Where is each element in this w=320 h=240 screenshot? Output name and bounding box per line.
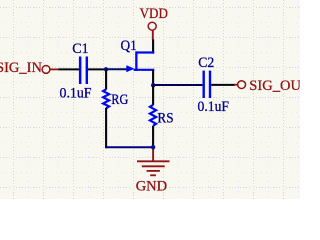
node J2 junction: [151, 83, 155, 87]
port SIG_OUT circle: [238, 81, 246, 89]
svg-text:C2: C2: [198, 55, 214, 71]
wire J1 to RG: [105, 69, 107, 89]
wire VDD to Q1 drain: [152, 40, 154, 54]
wire J2 to C2: [153, 84, 202, 86]
svg-text:C1: C1: [72, 41, 88, 57]
wire C1 to node J1: [88, 68, 106, 70]
grid dots: [0, 0, 300, 199]
port SIG_IN stub: [50, 68, 59, 70]
transistor Q1 gate arrow: [126, 65, 134, 72]
svg-text:Q1: Q1: [121, 38, 137, 54]
wire J2 to RS: [152, 85, 154, 105]
ground bar 1: [137, 160, 170, 162]
ground bar 4: [150, 174, 156, 176]
svg-text:SIG_OUT: SIG_OUT: [249, 78, 300, 94]
port SIG_OUT stub: [234, 84, 238, 86]
transistor Q1 drain lead: [136, 51, 154, 53]
node J1 junction: [104, 67, 108, 71]
resistor RS zigzag: [150, 105, 156, 126]
ground bar 2: [142, 165, 165, 167]
wire RG to bottom rail: [105, 108, 107, 148]
ground bar 3: [147, 170, 160, 172]
transistor Q1 source lead: [134, 69, 155, 71]
wire SIG_IN to C1: [59, 68, 80, 70]
svg-text:SIG_IN: SIG_IN: [0, 60, 42, 76]
svg-text:RG: RG: [111, 92, 128, 108]
power port VDD stub: [152, 30, 154, 40]
svg-text:GND: GND: [136, 179, 168, 195]
capacitor C2 plates: [203, 71, 205, 98]
svg-text:RS: RS: [157, 111, 173, 127]
power port VDD circle: [148, 22, 156, 30]
port SIG_IN circle: [42, 66, 50, 74]
sheet background: [0, 0, 300, 199]
svg-text:0.1uF: 0.1uF: [60, 85, 92, 101]
node J3 junction: [151, 145, 155, 149]
wire Q1 source to node J2: [152, 70, 154, 86]
resistor RG zigzag: [103, 89, 109, 108]
svg-text:0.1uF: 0.1uF: [198, 99, 230, 115]
capacitor C1 plates: [79, 57, 82, 85]
wire C2 to SIG_OUT: [211, 84, 235, 86]
transistor Q1 channel bar: [135, 51, 137, 71]
wire J1 to Q1 gate: [106, 68, 127, 70]
wire RS to node J3: [152, 126, 154, 147]
power port GND stub: [152, 148, 154, 161]
svg-text:VDD: VDD: [140, 6, 168, 22]
